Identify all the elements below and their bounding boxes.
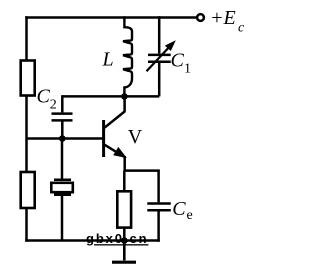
capacitor C1 stem bottom xyxy=(158,63,161,97)
crystal plates xyxy=(54,180,71,195)
svg-text:2: 2 xyxy=(50,98,57,113)
transistor V collector xyxy=(105,95,125,128)
inductor L xyxy=(123,16,132,96)
node collector junction xyxy=(121,93,128,100)
capacitor Ce stem top xyxy=(157,169,160,202)
svg-text:e: e xyxy=(187,208,193,223)
crystal stem bottom xyxy=(61,196,64,241)
resistor R2 xyxy=(21,172,35,208)
node base junction xyxy=(59,135,66,142)
wire emitter node horizontal xyxy=(124,169,159,172)
capacitor C2 plates xyxy=(52,114,73,121)
svg-text:1: 1 xyxy=(184,62,191,77)
capacitor Ce stem bottom xyxy=(157,211,160,241)
capacitor C1 plates xyxy=(148,55,171,62)
svg-text:C: C xyxy=(171,49,185,71)
resistor R1 xyxy=(21,61,35,96)
wire to Re xyxy=(123,171,126,192)
wire tank bottom horizontal xyxy=(62,95,159,98)
crystal stem top xyxy=(61,139,64,180)
capacitor Ce plates xyxy=(147,204,171,211)
svg-text:L: L xyxy=(102,49,114,71)
wire bottom horizontal xyxy=(25,239,160,242)
capacitor C2 stem top xyxy=(61,95,64,112)
capacitor C1 stem top xyxy=(158,16,161,53)
label C1 xyxy=(171,49,192,76)
crystal body xyxy=(51,183,73,192)
wire left vertical middle xyxy=(25,96,28,173)
svg-text:gbx0.cn: gbx0.cn xyxy=(86,231,148,246)
svg-text:c: c xyxy=(238,21,245,36)
wire emitter vertical xyxy=(123,156,126,172)
transistor V emitter xyxy=(105,145,126,158)
capacitor C2 stem bottom xyxy=(61,122,64,139)
transistor V base bar xyxy=(102,120,105,157)
svg-text:C: C xyxy=(172,198,186,220)
label +Ec xyxy=(210,7,245,35)
svg-text:C: C xyxy=(37,85,51,107)
wire top horizontal xyxy=(25,16,197,19)
node ground junction xyxy=(121,237,128,244)
transistor V emitter arrow xyxy=(113,147,127,158)
label C2 xyxy=(37,85,57,112)
wire base horizontal xyxy=(27,137,103,140)
wire left vertical bottom xyxy=(25,208,28,242)
label Ce xyxy=(172,198,192,223)
svg-text:+E: +E xyxy=(210,7,236,29)
resistor Re xyxy=(117,191,131,227)
wire Re bottom xyxy=(123,228,126,241)
terminal +Ec xyxy=(197,14,204,21)
svg-text:V: V xyxy=(128,126,143,148)
capacitor C1 arrow xyxy=(147,40,176,71)
wire left vertical xyxy=(25,16,28,61)
ground xyxy=(112,241,136,263)
